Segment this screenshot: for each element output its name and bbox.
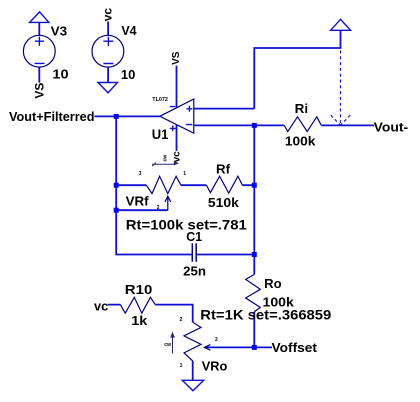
svg-text:VRo: VRo bbox=[202, 359, 228, 374]
svg-text:Voffset: Voffset bbox=[272, 340, 318, 355]
svg-text:vc: vc bbox=[172, 151, 183, 163]
svg-text:Ro: Ro bbox=[264, 276, 282, 291]
svg-text:Ri: Ri bbox=[295, 101, 309, 116]
svg-text:3: 3 bbox=[139, 171, 142, 177]
svg-text:10: 10 bbox=[52, 67, 68, 82]
svg-text:VRf: VRf bbox=[126, 194, 150, 209]
svg-text:Rf: Rf bbox=[216, 161, 231, 176]
svg-text:2: 2 bbox=[180, 317, 183, 323]
svg-text:1: 1 bbox=[180, 363, 183, 369]
svg-text:U1: U1 bbox=[152, 126, 169, 142]
svg-text:510k: 510k bbox=[208, 195, 240, 210]
svg-text:Rt=1K set=.366859: Rt=1K set=.366859 bbox=[200, 307, 331, 323]
svg-text:cw: cw bbox=[162, 155, 168, 162]
svg-text:2: 2 bbox=[215, 337, 218, 343]
svg-text:vc: vc bbox=[94, 298, 108, 313]
svg-text:VS: VS bbox=[32, 83, 46, 99]
svg-text:100k: 100k bbox=[285, 134, 316, 149]
svg-text:VS: VS bbox=[171, 51, 182, 65]
svg-text:V4: V4 bbox=[121, 23, 137, 38]
svg-text:Vout-: Vout- bbox=[374, 119, 409, 134]
svg-text:vc: vc bbox=[101, 8, 115, 22]
svg-text:10: 10 bbox=[121, 67, 135, 82]
svg-text:cw: cw bbox=[164, 342, 171, 348]
svg-text:1: 1 bbox=[183, 171, 186, 177]
svg-text:R10: R10 bbox=[125, 282, 153, 297]
svg-text:25n: 25n bbox=[183, 263, 206, 278]
svg-text:C1: C1 bbox=[186, 229, 202, 244]
svg-text:TL072: TL072 bbox=[152, 97, 168, 103]
svg-text:2: 2 bbox=[157, 205, 160, 211]
svg-text:1k: 1k bbox=[131, 313, 148, 328]
svg-text:Vout+Filterred: Vout+Filterred bbox=[9, 109, 95, 124]
svg-text:V3: V3 bbox=[51, 23, 67, 38]
